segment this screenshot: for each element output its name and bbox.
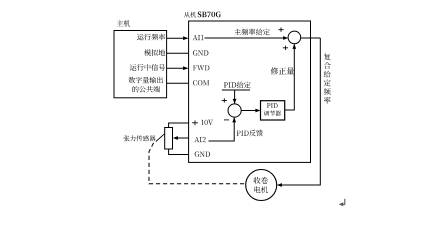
terminal AI1 [193, 35, 204, 40]
label 调节器 [264, 111, 281, 116]
terminal GND lower [195, 152, 210, 157]
wire PID feedback (AI2 to S2) [209, 118, 235, 141]
slave inverter box (从机 SB70G) [189, 21, 311, 162]
summing junction S2 [228, 104, 241, 117]
arrow into motor [277, 183, 282, 187]
terminal FWD [193, 65, 209, 70]
terminal +10V [192, 120, 198, 125]
label PID反馈 [237, 130, 263, 136]
plus sign (setpoint) [222, 98, 227, 102]
wire S1 output to right rail [301, 37, 321, 39]
label 电机 [254, 186, 268, 193]
wiper arrow from AI2 [176, 137, 189, 139]
leader line from label to pot [156, 134, 165, 142]
label 收卷 [254, 177, 268, 184]
wire correction 修正量 (PID output to S1) [285, 44, 295, 110]
label 主机 [117, 20, 131, 26]
summing junction S1 [288, 31, 301, 44]
right rail wire down to motor [278, 38, 321, 185]
wire 模拟地 to GND [167, 52, 189, 54]
host box (主机) [114, 31, 167, 98]
plus sign (correction input) [283, 46, 288, 50]
minus sign (feedback) [224, 119, 229, 121]
wire S2 to PID controller [241, 110, 259, 112]
label 模拟地 [144, 49, 165, 56]
potentiometer (tension sensor) body [165, 128, 173, 150]
PID controller box [261, 101, 285, 120]
label SB70G [198, 12, 221, 18]
label 的公共端 [133, 86, 160, 92]
motor circle 收卷电机 [246, 170, 277, 201]
label 数字量输出 [128, 77, 163, 84]
label 运行中信号 [130, 64, 165, 71]
label 从机 [184, 12, 196, 18]
wire AI1 to summing junction [205, 37, 288, 39]
label 运行频率 [137, 34, 165, 41]
wire pot top to +10V [169, 123, 189, 128]
terminal GND [193, 50, 208, 55]
terminal AI2 [194, 137, 205, 142]
label PID [267, 103, 278, 108]
label 主频率给定 [234, 29, 269, 36]
wire 运行中信号 to FWD [167, 67, 188, 69]
paragraph return mark [341, 199, 345, 205]
label 修正量 [271, 67, 294, 74]
wire PID setpoint into S2 [222, 89, 250, 91]
label 张力传感器 [124, 135, 156, 141]
plus sign (main input) [278, 28, 283, 32]
label PID给定 [224, 82, 251, 89]
wire 数字量输出公共端 to COM [167, 82, 189, 84]
label 复合给定频率 (vertical) [324, 53, 331, 103]
dashed mechanical link sensor-motor [149, 143, 245, 184]
wire 运行频率 to AI1 [167, 37, 188, 39]
terminal 10V [201, 120, 213, 125]
terminal COM [193, 80, 209, 85]
wire pot bottom to GND [169, 149, 189, 155]
